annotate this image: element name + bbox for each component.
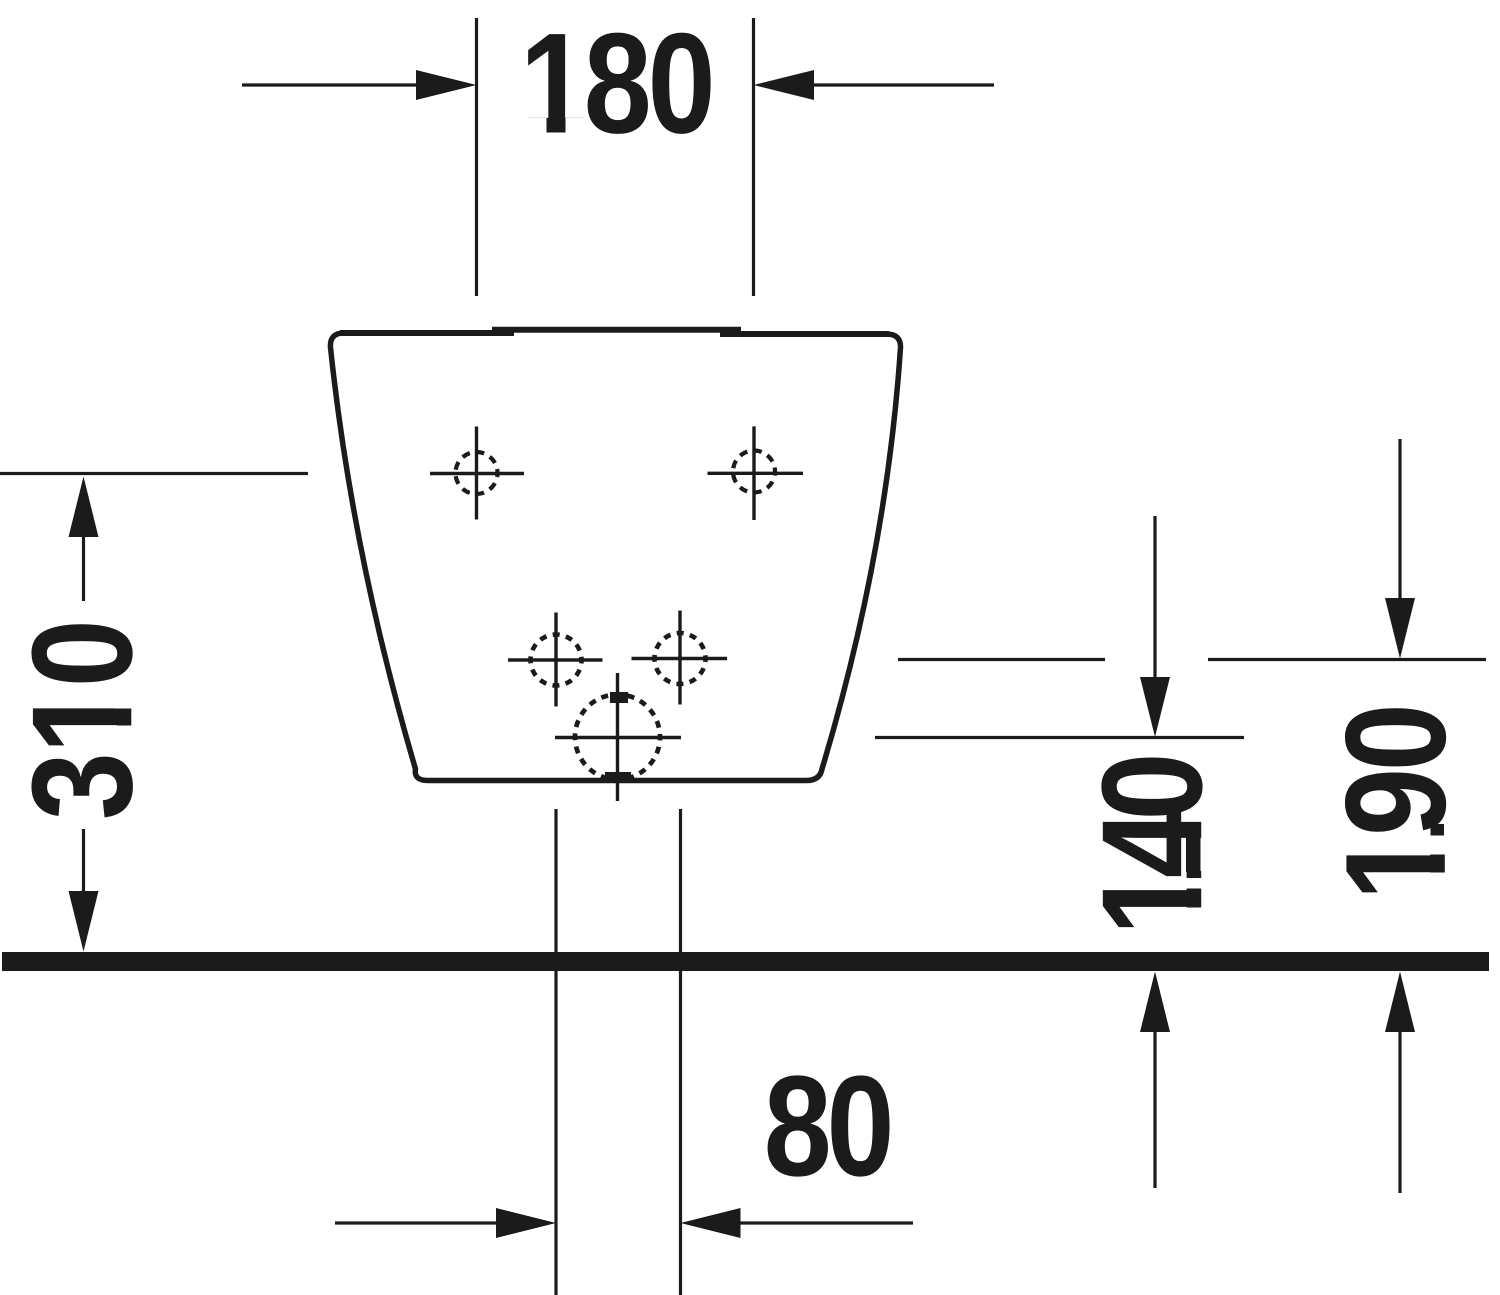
dim 190 below-ground arrow head up [1385, 972, 1415, 1033]
dim 310 lower shaft [82, 829, 85, 893]
svg-text:180: 180 [520, 5, 716, 164]
label 140 digit-1 foot patch lower [1185, 908, 1204, 930]
label 140 digit-1 foot patch upper [1185, 878, 1204, 889]
label 180 digit-1 foot patch left [526, 118, 547, 135]
label 190 digit-9 tail chip cover [1429, 835, 1448, 844]
dim 140 below-ground arrow head up [1140, 972, 1170, 1033]
label 190 digit-9 tail connector [1431, 824, 1445, 836]
dim 180 arrow left shaft [242, 83, 420, 86]
dim 80 extension line right [679, 809, 682, 1295]
bidet top edge middle segment [492, 327, 741, 333]
dim 310 lower arrow head [69, 891, 99, 952]
fixing hole right crosshair vertical [752, 426, 755, 520]
label 190 digit-1 foot patch upper [1429, 844, 1448, 855]
dim 310 upper shaft [82, 534, 85, 601]
dim 310 upper arrow head [69, 477, 99, 538]
dim 180 arrow right head [754, 70, 815, 100]
dim 190 arrow head down [1385, 598, 1415, 659]
fixing hole right crosshair horizontal [708, 472, 804, 475]
svg-text:190: 190 [1317, 703, 1476, 901]
dim 80 arrow left shaft [335, 1221, 500, 1224]
small hole right crosshair horizontal [632, 657, 728, 660]
drain hole crosshair vertical [616, 673, 619, 801]
label 310 digit-1 foot patch lower [115, 726, 134, 748]
dim 80 arrow right shaft [738, 1221, 913, 1224]
bidet outline sides and bottom [330, 333, 900, 781]
dim 180 extension line right [752, 18, 755, 296]
extension line small holes level right part [1208, 658, 1486, 661]
dim 180 extension line left [475, 18, 478, 296]
dim 180 arrow right shaft [810, 83, 994, 86]
drain hole crosshair horizontal [555, 736, 681, 739]
dim 180 arrow left head [416, 70, 477, 100]
fixing hole left crosshair horizontal [430, 472, 524, 475]
fixing hole left circle [456, 452, 498, 494]
svg-text:80: 80 [764, 1047, 895, 1206]
dim 310 extension line [0, 472, 308, 475]
extension line small holes level [898, 658, 1105, 661]
dim 140 arrow head down [1140, 677, 1170, 737]
extension line drain level [875, 736, 1244, 739]
dim 80 arrow right head [681, 1208, 741, 1238]
bidet top edge right segment [720, 331, 889, 337]
floor line [2, 952, 1489, 971]
label 180 digit-1 foot patch right [566, 118, 586, 135]
fixing hole right circle [733, 451, 775, 493]
label 140 digit-4 bar bridge [1186, 837, 1201, 872]
bidet top edge left segment [340, 330, 514, 336]
small hole right circle [655, 633, 706, 684]
small hole left crosshair horizontal [508, 658, 603, 661]
drain hole top crossing blob [610, 692, 628, 703]
dim 140 line shaft [1153, 516, 1156, 680]
dim 80 extension line left [554, 809, 557, 1295]
small hole right crosshair vertical [678, 611, 681, 705]
dim 140 below-ground shaft [1153, 1030, 1156, 1188]
drain hole circle [575, 695, 660, 780]
svg-text:140: 140 [1073, 753, 1232, 936]
dim 190 below-ground shaft [1398, 1030, 1401, 1193]
dim 190 line shaft [1398, 439, 1401, 601]
fixing hole left crosshair vertical [475, 427, 478, 520]
label 190 digit-1 foot patch lower [1429, 873, 1448, 895]
svg-text:310: 310 [3, 619, 162, 820]
small hole left crosshair vertical [554, 613, 557, 707]
label 310 digit-1 foot patch upper [115, 687, 134, 709]
drain hole bottom crossing blob [605, 772, 631, 783]
dim 80 arrow left head [496, 1208, 556, 1238]
small hole left circle [531, 635, 582, 686]
